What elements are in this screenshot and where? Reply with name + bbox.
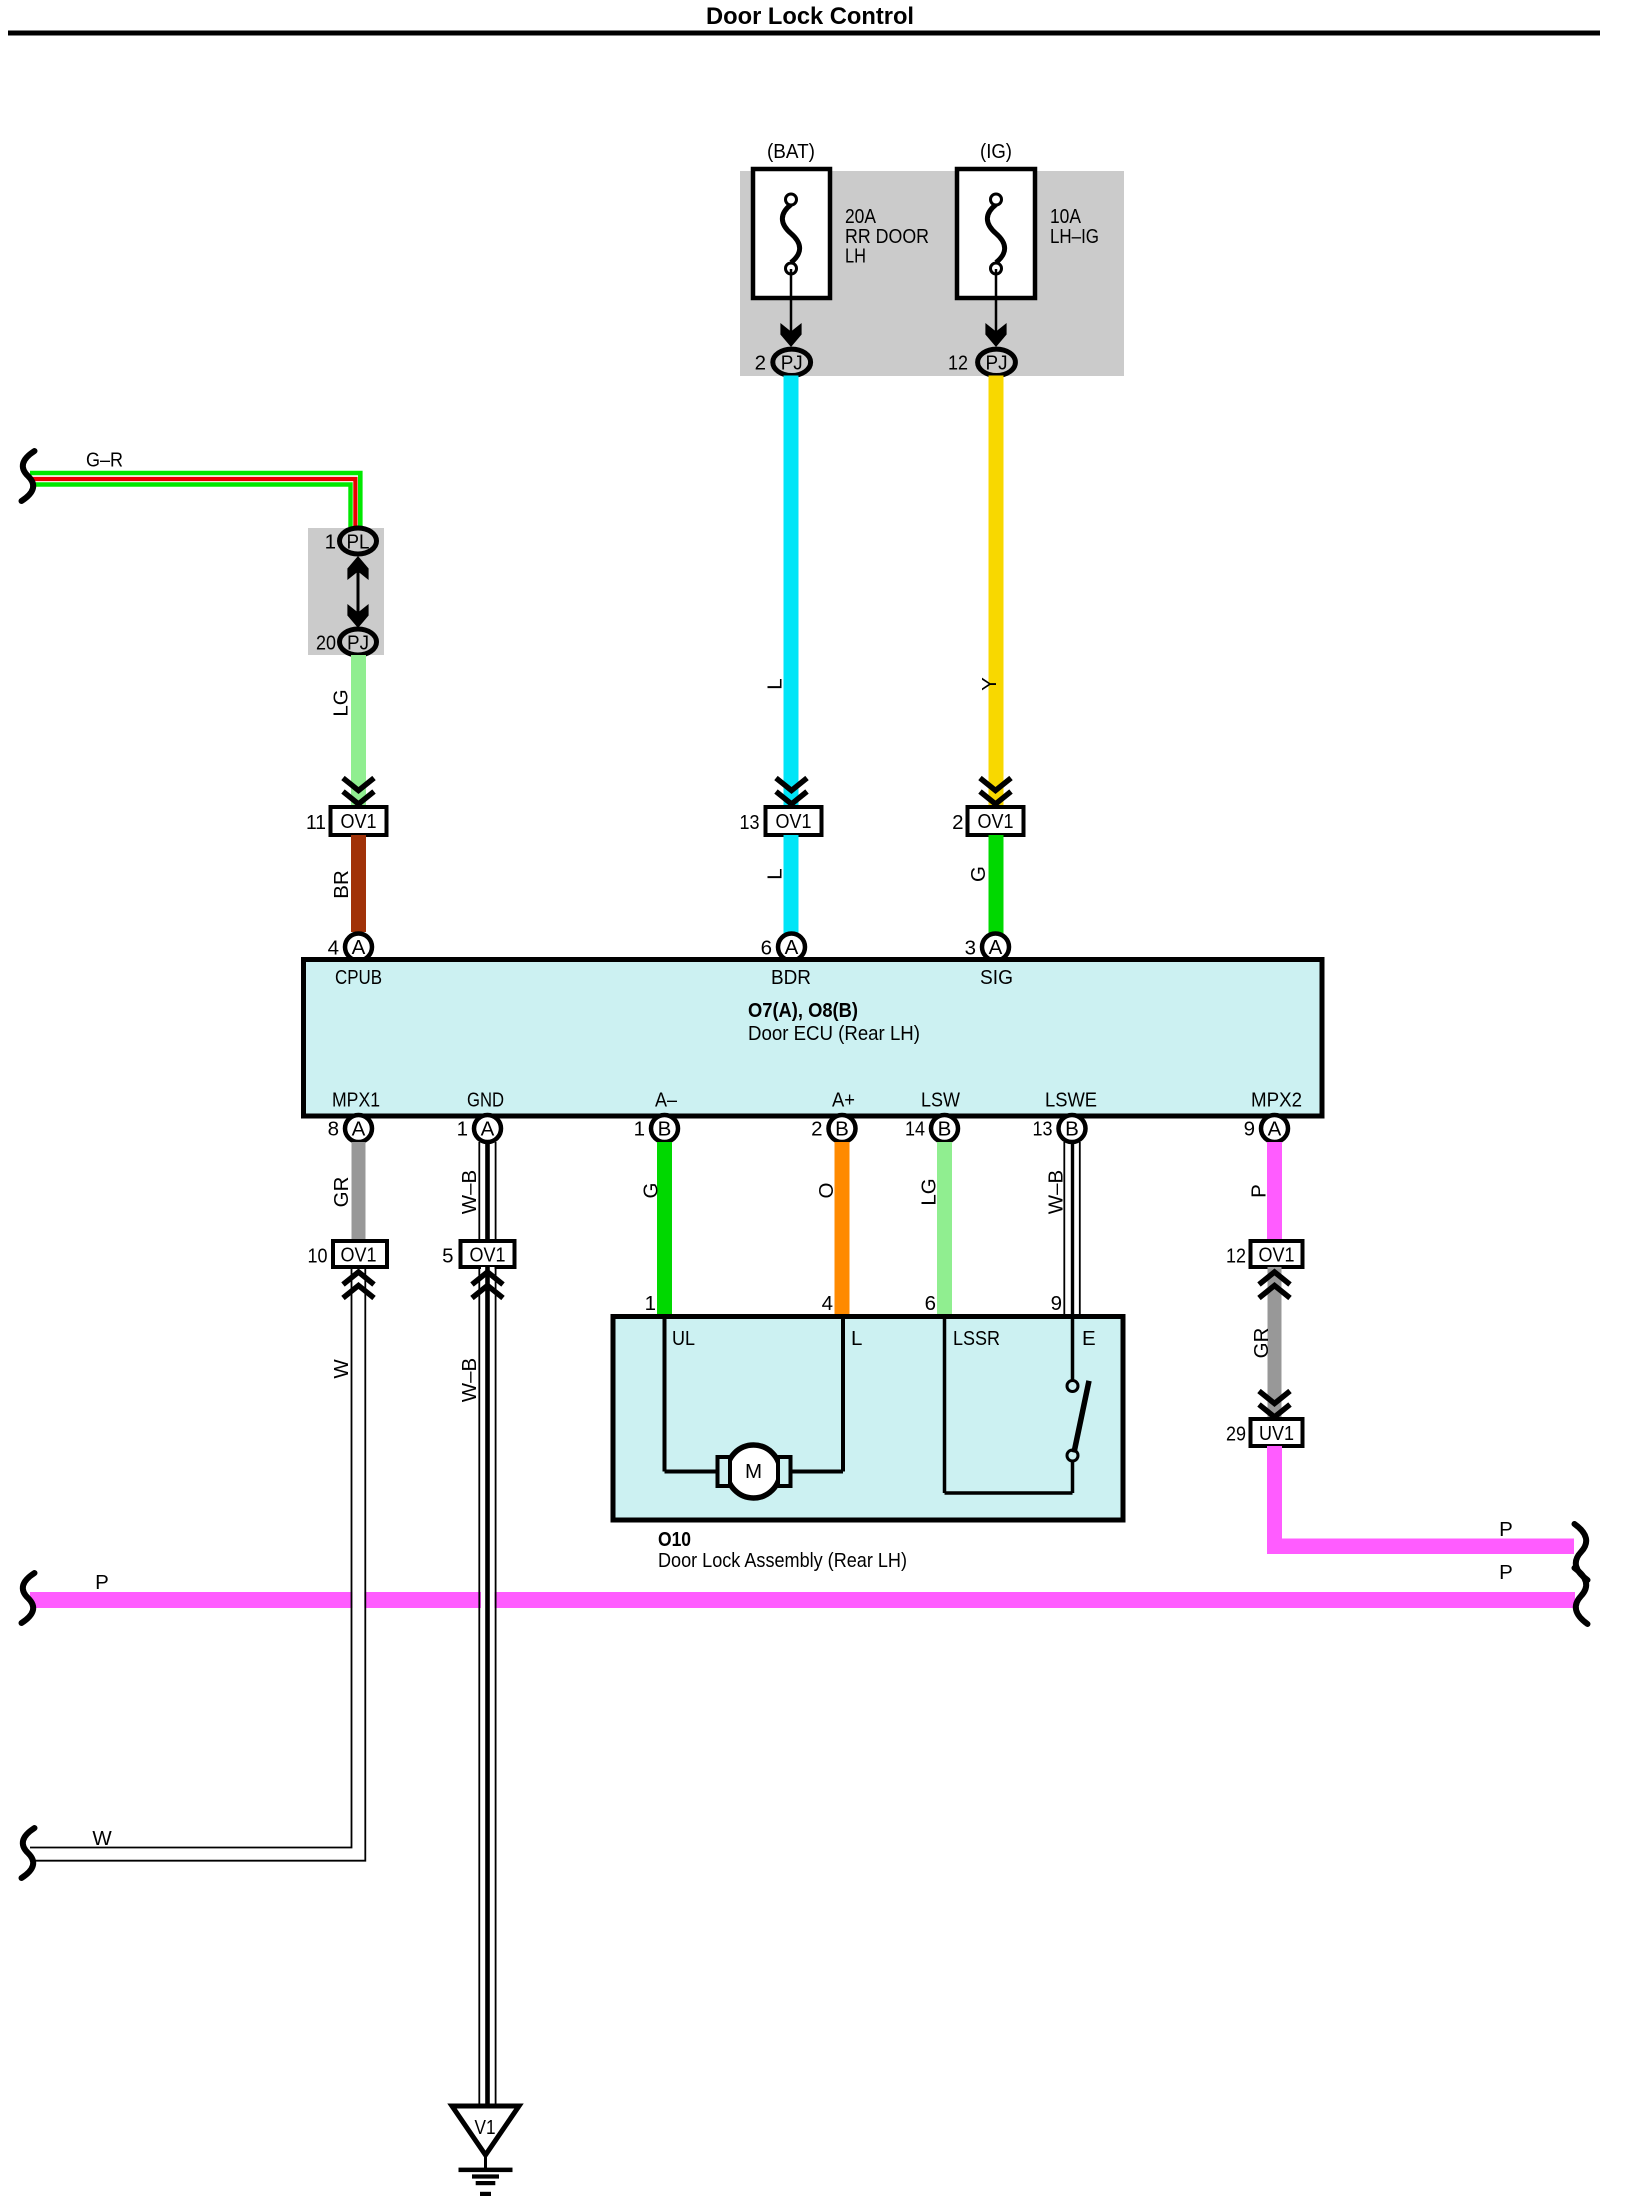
svg-text:GR: GR [1250, 1328, 1273, 1359]
wire break squiggle right (short P) [1575, 1524, 1588, 1580]
svg-text:A: A [352, 1118, 366, 1141]
svg-text:1: 1 [325, 531, 336, 554]
ECU pin 3 A [965, 934, 1009, 961]
svg-text:O10: O10 [658, 1528, 691, 1551]
svg-text:P: P [1248, 1184, 1271, 1198]
svg-text:6: 6 [925, 1292, 936, 1315]
svg-text:1: 1 [634, 1118, 645, 1141]
ECU pin 1 A [457, 1115, 501, 1142]
svg-text:L: L [764, 678, 787, 689]
svg-text:W–B: W–B [1045, 1170, 1068, 1214]
svg-text:1: 1 [457, 1118, 468, 1141]
svg-text:LG: LG [918, 1178, 941, 1205]
wire G-R from left edge [30, 473, 360, 528]
svg-text:4: 4 [328, 937, 339, 960]
svg-text:V1: V1 [475, 2116, 496, 2139]
svg-text:10: 10 [308, 1245, 328, 1268]
connector 12 PJ [948, 349, 1015, 375]
svg-text:2: 2 [811, 1118, 822, 1141]
chevrons into 2 OV1 [980, 778, 1011, 804]
svg-text:B: B [835, 1118, 849, 1141]
wire Y (yellow) PJ to OV1 [989, 376, 1004, 808]
wire fuse1 to connector PJ [780, 269, 801, 347]
ECU pin 6 A [761, 934, 805, 961]
svg-text:LG: LG [330, 689, 353, 716]
svg-text:14: 14 [905, 1118, 925, 1141]
wire BR OV1 to ECU pin 4 [351, 835, 366, 932]
motor M [718, 1445, 791, 1498]
ECU pin 9 A [1244, 1115, 1288, 1142]
svg-text:Door Lock Control: Door Lock Control [706, 3, 914, 30]
svg-text:PL: PL [347, 531, 370, 554]
connector 5 OV1 [442, 1241, 514, 1268]
svg-text:B: B [658, 1118, 672, 1141]
svg-text:Door ECU (Rear LH): Door ECU (Rear LH) [748, 1022, 920, 1045]
svg-text:MPX2: MPX2 [1251, 1089, 1302, 1112]
svg-text:M: M [745, 1460, 762, 1483]
connector 29 UV1 [1226, 1419, 1303, 1446]
svg-text:B: B [938, 1118, 952, 1141]
svg-text:12: 12 [1226, 1245, 1246, 1268]
svg-text:OV1: OV1 [776, 810, 812, 833]
wire W-B ECU pin 13B to door lock pin 9 [1064, 1142, 1080, 1316]
wire GR OV1 to UV1 [1268, 1267, 1282, 1419]
junction block gray panel [740, 171, 1124, 376]
lock position switch wires [945, 1319, 1073, 1493]
svg-text:BDR: BDR [771, 966, 811, 989]
fuse 10A LH-IG [957, 169, 1035, 298]
svg-text:1: 1 [645, 1292, 656, 1315]
svg-text:9: 9 [1244, 1118, 1255, 1141]
wire P UV1 down and right to edge [1267, 1446, 1574, 1554]
svg-text:O7(A), O8(B): O7(A), O8(B) [748, 999, 858, 1022]
svg-text:3: 3 [965, 937, 976, 960]
svg-text:PJ: PJ [781, 352, 803, 375]
svg-text:13: 13 [740, 811, 760, 834]
svg-text:20: 20 [316, 632, 336, 655]
connector 2 OV1 [952, 807, 1023, 835]
svg-text:W: W [92, 1827, 112, 1850]
svg-text:UV1: UV1 [1259, 1422, 1294, 1445]
connector 10 OV1 [308, 1241, 388, 1268]
svg-text:Y: Y [978, 677, 1001, 691]
svg-text:4: 4 [822, 1292, 833, 1315]
chevrons out of 5 OV1 [472, 1272, 503, 1298]
ECU pin 13 B [1033, 1115, 1086, 1142]
connector 20 PJ [316, 629, 377, 655]
svg-text:2: 2 [755, 352, 766, 375]
connector 12 OV1 [1226, 1241, 1303, 1268]
svg-text:11: 11 [306, 811, 326, 834]
svg-text:LSWE: LSWE [1045, 1089, 1097, 1112]
svg-text:G: G [967, 866, 990, 882]
svg-text:E: E [1082, 1327, 1096, 1350]
wire LG ECU pin 14B to door lock pin 6 [937, 1142, 952, 1317]
svg-text:6: 6 [761, 937, 772, 960]
ECU pin 14 B [905, 1115, 958, 1142]
wire G ECU pin 1B to door lock pin 1 [657, 1142, 672, 1317]
svg-text:W–B: W–B [458, 1170, 481, 1214]
wire break squiggle left (W) [22, 1828, 35, 1878]
svg-text:B: B [1065, 1118, 1079, 1141]
svg-text:(IG): (IG) [980, 140, 1012, 163]
wire P long horizontal [30, 1592, 1575, 1608]
connector 2 PJ [755, 349, 811, 375]
connector 11 OV1 [306, 807, 387, 835]
svg-text:A: A [989, 936, 1003, 959]
svg-text:A+: A+ [832, 1089, 855, 1112]
chevrons into 13 OV1 [776, 778, 807, 804]
ECU pin 1 B [634, 1115, 678, 1142]
svg-text:12: 12 [948, 352, 968, 375]
wire break squiggle right (long P) [1575, 1568, 1588, 1624]
svg-text:P: P [1499, 1561, 1513, 1584]
wire break squiggle left (long P) [22, 1573, 35, 1623]
svg-text:MPX1: MPX1 [332, 1089, 380, 1112]
wire fuse2 to connector PJ [985, 269, 1006, 347]
svg-text:LH–IG: LH–IG [1050, 225, 1099, 248]
svg-text:Door Lock Assembly (Rear LH): Door Lock Assembly (Rear LH) [658, 1549, 907, 1572]
svg-text:GR: GR [330, 1177, 353, 1208]
svg-text:P: P [1499, 1518, 1513, 1541]
svg-text:9: 9 [1051, 1292, 1062, 1315]
ground V1 [452, 2106, 519, 2196]
svg-text:OV1: OV1 [470, 1244, 506, 1267]
fuse 20A RR DOOR LH [753, 169, 830, 298]
svg-text:G: G [640, 1183, 663, 1199]
connector 1 PL [325, 528, 377, 554]
svg-text:LSW: LSW [921, 1089, 961, 1112]
svg-text:A: A [1268, 1118, 1282, 1141]
chevrons into 11 OV1 [343, 778, 374, 804]
connector gray panel PL/PJ [308, 528, 384, 655]
svg-text:OV1: OV1 [1259, 1244, 1295, 1267]
svg-text:OV1: OV1 [341, 810, 377, 833]
wire W MPX1 down and left to edge [30, 1267, 365, 1861]
ECU pin 2 B [811, 1115, 855, 1142]
wire W-B ECU pin 1 to OV1 [479, 1142, 495, 1241]
svg-text:OV1: OV1 [978, 810, 1014, 833]
svg-text:A: A [352, 936, 366, 959]
svg-text:W: W [330, 1359, 353, 1379]
wire P ECU pin 9A to OV1 [1267, 1142, 1282, 1242]
svg-text:PJ: PJ [347, 632, 369, 655]
svg-text:PJ: PJ [986, 352, 1008, 375]
svg-text:G–R: G–R [86, 449, 123, 472]
title underline [8, 31, 1600, 36]
svg-text:8: 8 [328, 1118, 339, 1141]
svg-text:W–B: W–B [458, 1358, 481, 1402]
ECU pin 8 A [328, 1115, 372, 1142]
wire GR ECU pin 8 to OV1 [352, 1142, 366, 1241]
double arrow PL-PJ [347, 556, 368, 628]
svg-text:OV1: OV1 [341, 1244, 377, 1267]
wire G OV1 to ECU pin 3 [989, 835, 1004, 944]
svg-text:CPUB: CPUB [335, 966, 382, 989]
svg-text:29: 29 [1226, 1423, 1246, 1446]
wire W-B GND to ground [479, 1267, 495, 2105]
chevrons out of 12 OV1 [1259, 1272, 1290, 1298]
svg-text:P: P [95, 1571, 109, 1594]
svg-text:L: L [851, 1327, 862, 1350]
chevrons into 29 UV1 [1259, 1391, 1290, 1417]
svg-text:2: 2 [952, 811, 963, 834]
svg-text:A: A [785, 936, 799, 959]
chevrons out of 10 OV1 [343, 1272, 374, 1298]
svg-text:O: O [815, 1183, 838, 1199]
svg-text:LSSR: LSSR [953, 1327, 1000, 1350]
svg-text:A: A [481, 1118, 495, 1141]
wire LG PJ to OV1 [351, 655, 366, 805]
svg-text:BR: BR [330, 870, 353, 898]
door lock assembly box [613, 1317, 1123, 1521]
wire break squiggle left (G-R) [22, 451, 35, 501]
motor circuit wires [665, 1319, 844, 1472]
wire L OV1 to ECU pin 6 [784, 835, 799, 944]
svg-text:13: 13 [1033, 1118, 1053, 1141]
svg-text:A–: A– [655, 1089, 678, 1112]
connector 13 OV1 [740, 807, 822, 835]
svg-text:LH: LH [845, 244, 866, 267]
svg-text:L: L [764, 868, 787, 879]
lock position switch [1067, 1381, 1089, 1462]
svg-text:UL: UL [672, 1327, 695, 1350]
svg-text:(BAT): (BAT) [767, 140, 815, 163]
wire O ECU pin 2B to door lock pin 4 [835, 1142, 850, 1317]
svg-text:GND: GND [467, 1089, 504, 1112]
svg-text:SIG: SIG [980, 966, 1013, 989]
wire L (cyan) PJ to OV1 [784, 376, 799, 808]
ECU pin 4 A [328, 934, 372, 961]
ECU O7(A) O8(B) Door ECU (Rear LH) box [304, 960, 1323, 1117]
svg-text:5: 5 [442, 1245, 453, 1268]
